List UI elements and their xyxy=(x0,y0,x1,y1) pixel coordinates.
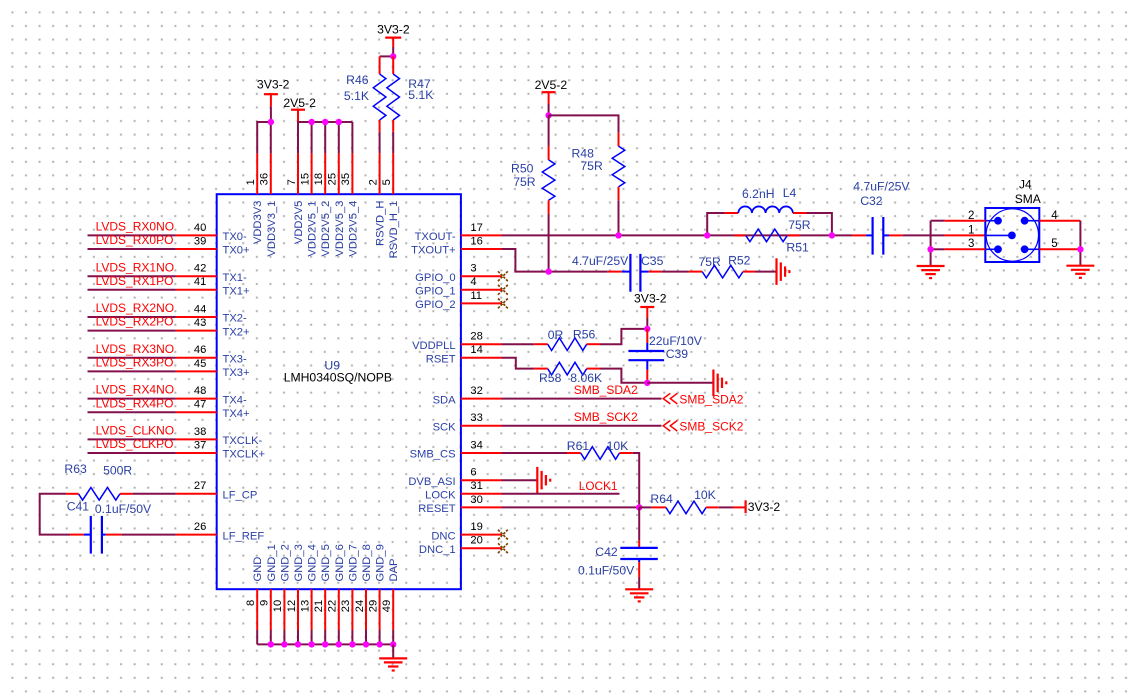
svg-text:3: 3 xyxy=(470,263,476,275)
svg-text:TXOUT-: TXOUT- xyxy=(415,231,456,243)
wire net LVDS_RX3NO xyxy=(88,357,176,359)
U9 pin 18 (VDD2V5_2) top stub xyxy=(324,153,326,194)
resistor R58 (8.06K) horizontal xyxy=(548,362,587,375)
svg-text:1: 1 xyxy=(245,179,257,185)
U9 pin 46 (TX3-) left stub xyxy=(176,357,217,359)
junction GND bus at pin 29 xyxy=(376,641,382,647)
resistor R63 (500R) horizontal xyxy=(66,488,120,501)
svg-text:LVDS_CLKPO: LVDS_CLKPO xyxy=(96,437,174,451)
junction VDDPLL top node xyxy=(644,326,650,332)
svg-text:TX2+: TX2+ xyxy=(223,326,250,338)
U9 pin 13 number label (rotated) xyxy=(299,600,311,612)
svg-text:25: 25 xyxy=(327,173,339,185)
svg-text:500R: 500R xyxy=(103,463,132,477)
U9 pin 13 (GND_4) bottom stub xyxy=(311,589,313,630)
resistor R47 (5.1K) xyxy=(387,56,400,120)
svg-text:LVDS_RX3PO: LVDS_RX3PO xyxy=(96,356,174,370)
U9 pin name TXCLK+ xyxy=(223,449,266,461)
svg-text:26: 26 xyxy=(194,521,206,533)
U9 pin 35 (VDD2V5_4) top stub xyxy=(351,153,353,194)
no-connect X at DNC pin 19 xyxy=(498,530,508,540)
ground at SMA right xyxy=(1066,266,1094,278)
J4 pin number 2 xyxy=(968,210,974,222)
wire L4 right lead to right node xyxy=(793,213,832,235)
wire TXOUT- from pin 17 to C32 xyxy=(502,234,852,236)
resistor R50 labels xyxy=(511,161,536,189)
power port 3V3-2 (over pin 36) label xyxy=(257,78,290,92)
svg-text:TX2-: TX2- xyxy=(223,313,248,325)
U9 pin name DAP (rotated) xyxy=(388,558,400,581)
U9 pin 46 number label xyxy=(194,344,206,356)
wire bottom node to ground xyxy=(647,382,713,384)
svg-text:75R: 75R xyxy=(580,159,603,173)
wire R52 to ground xyxy=(743,271,777,273)
junction GND bus at pin 9 xyxy=(268,641,274,647)
junction GND bus at pin 12 xyxy=(295,641,301,647)
net label LVDS_RX2PO xyxy=(96,315,174,329)
U9 pin 22 number label (rotated) xyxy=(327,600,339,612)
svg-text:R50: R50 xyxy=(511,161,534,175)
connector J4 labels xyxy=(1015,177,1041,205)
svg-text:46: 46 xyxy=(194,344,206,356)
U9 pin 6 number label xyxy=(470,467,476,479)
U9 pin 12 number label (rotated) xyxy=(286,600,298,612)
svg-text:DNC_1: DNC_1 xyxy=(419,544,456,556)
U9 pin 28 number label xyxy=(470,331,482,343)
svg-text:R51: R51 xyxy=(786,240,809,254)
svg-text:GND_6: GND_6 xyxy=(334,544,346,581)
wire net LVDS_RX4PO xyxy=(88,411,176,413)
U9 pin name GND_8 (rotated) xyxy=(361,544,373,581)
net label LVDS_RX2NO xyxy=(96,301,174,315)
U9 pin name GND_7 (rotated) xyxy=(347,544,359,581)
U9 pin name VDD3V3_1 (rotated) xyxy=(266,201,278,257)
power port 3V3-2 (right of R64) label xyxy=(748,500,781,514)
svg-text:TX3+: TX3+ xyxy=(223,367,250,379)
svg-text:9: 9 xyxy=(259,600,271,606)
off-page label SMB_SCK2 xyxy=(679,420,743,434)
junction GND bus at pin 21 xyxy=(322,641,328,647)
capacitor C35 designator xyxy=(641,254,664,268)
wire drop to pin 25 xyxy=(338,122,340,153)
svg-text:SMB_SCK2: SMB_SCK2 xyxy=(574,410,638,424)
U9 pin 15 number label (rotated) xyxy=(299,173,311,185)
U9 pin 33 (SCK) right stub xyxy=(461,425,502,427)
wire drop to pin 36 xyxy=(270,122,272,153)
svg-text:3V3-2: 3V3-2 xyxy=(634,292,667,306)
svg-text:48: 48 xyxy=(194,385,206,397)
U9 pin 2 number label (rotated) xyxy=(367,179,379,185)
power port 3V3-2 (over C39) label xyxy=(634,292,667,306)
U9 pin 33 number label xyxy=(470,412,482,424)
wire SDA from pin 32 xyxy=(502,398,662,400)
capacitor C42 value label xyxy=(578,564,635,578)
net label SMB_SCK2 on SCK wire xyxy=(574,410,638,424)
svg-text:SMA: SMA xyxy=(1015,192,1041,206)
U9 pin 1 number label (rotated) xyxy=(245,179,257,185)
U9 pin 40 number label xyxy=(194,222,206,234)
svg-text:C32: C32 xyxy=(860,194,883,208)
U9 pin name SCK xyxy=(433,422,457,434)
U9 pin 8 number label (rotated) xyxy=(245,600,257,606)
svg-text:GND_4: GND_4 xyxy=(307,544,319,581)
U9 pin name GND_5 (rotated) xyxy=(320,544,332,581)
svg-text:GND_1: GND_1 xyxy=(266,544,278,581)
U9 pin name VDD3V3 (rotated) xyxy=(252,201,264,245)
svg-text:10: 10 xyxy=(272,600,284,612)
svg-text:RSET: RSET xyxy=(426,354,456,366)
svg-text:R61: R61 xyxy=(567,439,590,453)
U9 pin 36 (VDD3V3_1) top stub xyxy=(270,153,272,194)
wire GND drop pin 49 xyxy=(392,630,394,644)
net label LVDS_RX0PO xyxy=(96,233,174,247)
U9 pin 29 (GND_9) bottom stub xyxy=(379,589,381,630)
junction L4/R51 left node xyxy=(704,232,710,238)
wire J4 pin 5 to right vertical xyxy=(1039,248,1080,250)
U9 pin 27 number label xyxy=(194,480,206,492)
wire 3V3-2 stem to bus xyxy=(270,107,272,122)
net label LVDS_CLKNO xyxy=(96,424,174,438)
svg-text:GPIO_2: GPIO_2 xyxy=(415,299,455,311)
svg-text:TX1-: TX1- xyxy=(223,272,248,284)
power port 3V3-2 (right of R64) bar symbol xyxy=(744,500,746,513)
svg-text:LVDS_RX1NO: LVDS_RX1NO xyxy=(96,260,174,274)
U9 pin 39 (TX0+) left stub xyxy=(176,248,217,250)
net label SMB_SDA2 on SDA wire xyxy=(574,383,638,397)
wire R50 bottom to TXOUT+ junction xyxy=(548,200,550,271)
capacitor C35 (4.7uF/25V) xyxy=(622,254,649,292)
U9 pin name LOCK xyxy=(425,490,456,502)
svg-text:SCK: SCK xyxy=(433,422,457,434)
wire TXOUT+ node to C35 xyxy=(549,271,622,273)
svg-text:SMB_SDA2: SMB_SDA2 xyxy=(574,383,638,397)
power port 2V5-2 label xyxy=(283,96,316,110)
svg-text:3V3-2: 3V3-2 xyxy=(377,23,410,37)
junction GND bus at pin 13 xyxy=(308,641,314,647)
resistor R56 (0R) horizontal xyxy=(548,338,587,351)
wire 2V5 bus pins 7-35 xyxy=(298,121,352,123)
svg-text:75R: 75R xyxy=(699,255,722,269)
capacitor C32 (4.7uF/25V) xyxy=(866,217,889,255)
svg-text:5.1K: 5.1K xyxy=(344,89,369,103)
wire net LVDS_RX1PO xyxy=(88,289,176,291)
svg-text:TXCLK+: TXCLK+ xyxy=(223,449,266,461)
U9 pin name GND_6 (rotated) xyxy=(334,544,346,581)
U9 pin 17 number label xyxy=(470,222,482,234)
svg-text:GND_5: GND_5 xyxy=(320,544,332,581)
wire J4 pin 4 to right vertical xyxy=(1039,220,1080,222)
U9 pin name GND (rotated) xyxy=(252,557,264,582)
resistor R63 labels xyxy=(64,462,132,478)
U9 pin 28 (VDDPLL) right stub xyxy=(461,343,502,345)
U9 pin 23 number label (rotated) xyxy=(340,600,352,612)
svg-text:GND_2: GND_2 xyxy=(279,544,291,581)
U9 pin name RSVD_H (rotated) xyxy=(375,201,387,246)
resistor R51 (75R) horizontal xyxy=(734,229,800,242)
wire GND drop pin 8 xyxy=(256,630,258,644)
wire net LVDS_RX0NO xyxy=(88,234,176,236)
U9 pin 47 number label xyxy=(194,399,206,411)
wire GND drop pin 23 xyxy=(351,630,353,644)
wire SCK from pin 33 xyxy=(502,425,662,427)
net label LVDS_RX1PO xyxy=(96,274,174,288)
svg-text:23: 23 xyxy=(340,600,352,612)
svg-text:RSVD_H_1: RSVD_H_1 xyxy=(388,201,400,259)
U9 pin 34 number label xyxy=(470,439,482,451)
svg-text:14: 14 xyxy=(470,344,482,356)
svg-text:SMB_CS: SMB_CS xyxy=(410,449,456,461)
wire R56 to VDDPLL node xyxy=(587,329,648,344)
svg-text:VDD2V5_1: VDD2V5_1 xyxy=(307,201,319,257)
svg-text:16: 16 xyxy=(470,235,482,247)
svg-text:DVB_ASI: DVB_ASI xyxy=(408,476,455,488)
U9 pin 6 (DVB_ASI) right stub xyxy=(461,479,502,481)
U9 pin name SDA xyxy=(433,394,457,406)
svg-text:5: 5 xyxy=(381,179,393,185)
U9 pin 7 (VDD2V5) top stub xyxy=(297,153,299,194)
wire right ground vertical xyxy=(1079,221,1081,266)
svg-text:33: 33 xyxy=(470,412,482,424)
wire C35 to R52 xyxy=(649,271,702,273)
U9 pin 31 (LOCK) right stub xyxy=(461,493,502,495)
resistor R64 labels xyxy=(650,488,715,506)
ground (rotated) at RSET node xyxy=(713,370,726,397)
U9 pin name VDDPLL xyxy=(412,340,456,352)
wire R58 to bottom node xyxy=(587,369,648,383)
svg-text:GPIO_1: GPIO_1 xyxy=(415,286,455,298)
svg-text:DAP: DAP xyxy=(388,558,400,581)
U9 pin 38 (TXCLK-) left stub xyxy=(176,438,217,440)
U9 pin name RESET xyxy=(418,503,455,515)
svg-text:1: 1 xyxy=(968,225,974,237)
svg-text:TX0-: TX0- xyxy=(223,231,248,243)
junction left SMA ground node xyxy=(927,246,933,252)
U9 pin 43 number label xyxy=(194,317,206,329)
U9 pin name GND_1 (rotated) xyxy=(266,544,278,581)
svg-text:32: 32 xyxy=(470,385,482,397)
U9 pin 25 number label (rotated) xyxy=(327,173,339,185)
power port 2V5-2 (over R50) label xyxy=(535,78,568,92)
svg-text:4.7uF/25V: 4.7uF/25V xyxy=(853,179,910,193)
junction at R50/R48 top node xyxy=(545,112,551,118)
U9 pin 5 number label (rotated) xyxy=(381,179,393,185)
resistor R46 labels xyxy=(344,73,369,103)
U9 pin 4 (GPIO_1) right stub xyxy=(461,289,502,291)
svg-text:VDDPLL: VDDPLL xyxy=(412,340,456,352)
svg-text:19: 19 xyxy=(470,521,482,533)
U9 pin name TX0+ xyxy=(223,245,250,257)
U9 pin 11 (GPIO_2) right stub xyxy=(461,302,502,304)
wire 3V3 bus pins 1-36 xyxy=(257,121,271,123)
svg-text:36: 36 xyxy=(259,173,271,185)
net label LVDS_RX4NO xyxy=(96,383,174,397)
U9 pin 44 (TX2-) left stub xyxy=(176,316,217,318)
svg-text:SDA: SDA xyxy=(433,394,457,406)
off-page connector chevron SMB_SCK2 xyxy=(663,421,677,432)
U9 pin 24 (GND_8) bottom stub xyxy=(365,589,367,630)
wire GND drop pin 13 xyxy=(311,630,313,644)
U9 pin 22 (GND_6) bottom stub xyxy=(338,589,340,630)
U9 pin 10 (GND_2) bottom stub xyxy=(283,589,285,630)
svg-text:TX4-: TX4- xyxy=(223,394,248,406)
U9 pin name DNC_1 xyxy=(419,544,456,556)
U9 pin name SMB_CS xyxy=(410,449,456,461)
svg-text:RESET: RESET xyxy=(418,503,455,515)
U9 pin 45 (TX3+) left stub xyxy=(176,370,217,372)
capacitor C39 (22uF/10V) xyxy=(628,329,664,383)
junction RSET bottom node xyxy=(644,380,650,386)
wire net LVDS_RX1NO xyxy=(88,275,176,277)
IC U9 reference designator xyxy=(324,359,340,373)
resistor R58 labels xyxy=(539,371,602,385)
ground at GND bus xyxy=(379,658,407,670)
U9 pin 37 (TXCLK+) left stub xyxy=(176,452,217,454)
U9 pin name RSET xyxy=(426,354,456,366)
wire C32 to SMA pin 1 xyxy=(889,234,985,236)
wire LF_CP from pin 27 to R63 xyxy=(120,493,176,495)
IC U9 body (LMH0340SQ/NOPB) xyxy=(217,194,461,589)
svg-text:J4: J4 xyxy=(1019,177,1032,191)
svg-text:12: 12 xyxy=(286,600,298,612)
ground (rotated) at R52 xyxy=(777,258,790,285)
U9 pin 38 number label xyxy=(194,426,206,438)
U9 pin 35 number label (rotated) xyxy=(340,173,352,185)
svg-text:2V5-2: 2V5-2 xyxy=(283,96,316,110)
U9 pin 18 number label (rotated) xyxy=(313,173,325,185)
wire net LVDS_CLKPO xyxy=(88,452,176,454)
U9 pin 1 (VDD3V3) top stub xyxy=(256,153,258,194)
U9 pin 39 number label xyxy=(194,235,206,247)
U9 pin 41 number label xyxy=(194,276,206,288)
svg-text:LVDS_RX2PO: LVDS_RX2PO xyxy=(96,315,174,329)
junction at pin 15 top xyxy=(308,119,314,125)
power port 3V3-2 (over pin 36) bar symbol xyxy=(264,94,278,107)
wire drop to pin 35 xyxy=(351,122,353,153)
resistor R61 (10K) horizontal xyxy=(581,447,620,460)
U9 pin 21 number label (rotated) xyxy=(313,600,325,612)
net label LVDS_RX3PO xyxy=(96,356,174,370)
junction at pin 18 top xyxy=(322,119,328,125)
U9 pin 14 number label xyxy=(470,344,482,356)
wire RESET from pin 30 xyxy=(502,506,640,508)
resistor R56 labels xyxy=(548,327,596,342)
svg-text:3V3-2: 3V3-2 xyxy=(748,500,781,514)
no-connect X at DNC pin 20 xyxy=(498,543,508,553)
svg-text:R56: R56 xyxy=(573,327,596,341)
svg-text:34: 34 xyxy=(470,439,482,451)
J4 pin number 4 xyxy=(1051,210,1058,222)
junction GND bus at pin 24 xyxy=(363,641,369,647)
wire GND drop pin 21 xyxy=(324,630,326,644)
svg-text:10K: 10K xyxy=(694,488,716,502)
svg-text:VDD3V3_1: VDD3V3_1 xyxy=(266,201,278,257)
resistor R52 (75R) horizontal xyxy=(702,265,743,278)
svg-text:LVDS_RX0PO: LVDS_RX0PO xyxy=(96,233,174,247)
capacitor C42 designator xyxy=(595,545,618,559)
wire R61 to RESET node xyxy=(620,453,640,507)
svg-text:TX1+: TX1+ xyxy=(223,286,250,298)
svg-text:GND_9: GND_9 xyxy=(375,544,387,581)
wire J4 pin 3 to ground branch xyxy=(931,248,986,250)
svg-text:TX0+: TX0+ xyxy=(223,245,250,257)
wire J4 pin 2 to ground branch xyxy=(931,220,986,222)
wire drop to pin 1 xyxy=(256,121,258,153)
ground at SMA left xyxy=(917,266,945,278)
resistor R64 (10K) horizontal with leads xyxy=(639,501,744,514)
U9 pin 48 (TX4-) left stub xyxy=(176,398,217,400)
U9 pin 32 (SDA) right stub xyxy=(461,398,502,400)
wire GND drop pin 10 xyxy=(283,630,285,644)
U9 pin 20 number label xyxy=(470,535,482,547)
U9 pin 14 (RSET) right stub xyxy=(461,357,502,359)
resistor R50 (75R) vertical xyxy=(542,160,555,200)
svg-text:3V3-2: 3V3-2 xyxy=(257,78,290,92)
svg-text:44: 44 xyxy=(194,303,206,315)
svg-text:75R: 75R xyxy=(788,218,811,232)
U9 pin 19 number label xyxy=(470,521,482,533)
wire R47 bottom to pin 5 xyxy=(392,120,394,153)
U9 pin name GND_2 (rotated) xyxy=(279,544,291,581)
junction GND bus at pin 10 xyxy=(281,641,287,647)
U9 pin 23 (GND_7) bottom stub xyxy=(351,589,353,630)
wire LOCK from pin 31 xyxy=(502,493,620,495)
svg-text:VDD2V5: VDD2V5 xyxy=(293,201,305,245)
svg-text:LVDS_RX1PO: LVDS_RX1PO xyxy=(96,274,174,288)
svg-text:LF_CP: LF_CP xyxy=(223,490,258,502)
svg-text:C35: C35 xyxy=(641,254,664,268)
U9 pin 10 number label (rotated) xyxy=(272,600,284,612)
capacitor C32 value label xyxy=(853,179,910,193)
svg-text:6.2nH: 6.2nH xyxy=(742,187,775,201)
ground at C42 xyxy=(625,589,653,601)
capacitor C39 designator xyxy=(666,347,689,361)
U9 pin 11 number label xyxy=(470,290,482,302)
svg-text:13: 13 xyxy=(299,600,311,612)
wire DVB_ASI pin 6 to ground xyxy=(502,479,538,481)
resistor R52 labels xyxy=(699,253,751,269)
svg-text:R58: R58 xyxy=(539,371,562,385)
U9 pin name GND_9 (rotated) xyxy=(375,544,387,581)
no-connect X at GPIO pin 3 xyxy=(498,271,508,281)
svg-text:29: 29 xyxy=(367,600,379,612)
U9 pin 30 (RESET) right stub xyxy=(461,506,502,508)
U9 pin name GND_3 (rotated) xyxy=(293,544,305,581)
U9 pin 40 (TX0-) left stub xyxy=(176,234,217,236)
U9 pin name VDD2V5 (rotated) xyxy=(293,201,305,245)
capacitor C42 (0.1uF/50V) xyxy=(620,548,658,578)
wire net LVDS_RX4NO xyxy=(88,398,176,400)
U9 pin name VDD2V5_2 (rotated) xyxy=(320,201,332,257)
svg-text:24: 24 xyxy=(354,600,366,612)
inductor L4 (6.2nH) xyxy=(738,206,793,213)
svg-text:8: 8 xyxy=(245,600,257,606)
capacitor C41 (0.1uF/50V) xyxy=(70,516,121,554)
svg-text:42: 42 xyxy=(194,263,206,275)
svg-text:38: 38 xyxy=(194,426,206,438)
wire GND drop pin 29 xyxy=(379,630,381,644)
svg-text:39: 39 xyxy=(194,235,206,247)
inductor L4 labels xyxy=(742,186,796,201)
ground (rotated) at DVB_ASI xyxy=(537,467,550,494)
svg-text:47: 47 xyxy=(194,399,206,411)
capacitor C32 designator xyxy=(860,194,883,208)
svg-text:7: 7 xyxy=(286,179,298,185)
resistor R47 labels xyxy=(408,77,433,102)
power port 3V3-2 (over R46/R47) bar symbol xyxy=(385,38,401,47)
net label LVDS_RX0NO xyxy=(96,220,174,234)
wire GND drop pin 9 xyxy=(270,630,272,644)
J4 pin number 1 xyxy=(968,225,974,237)
